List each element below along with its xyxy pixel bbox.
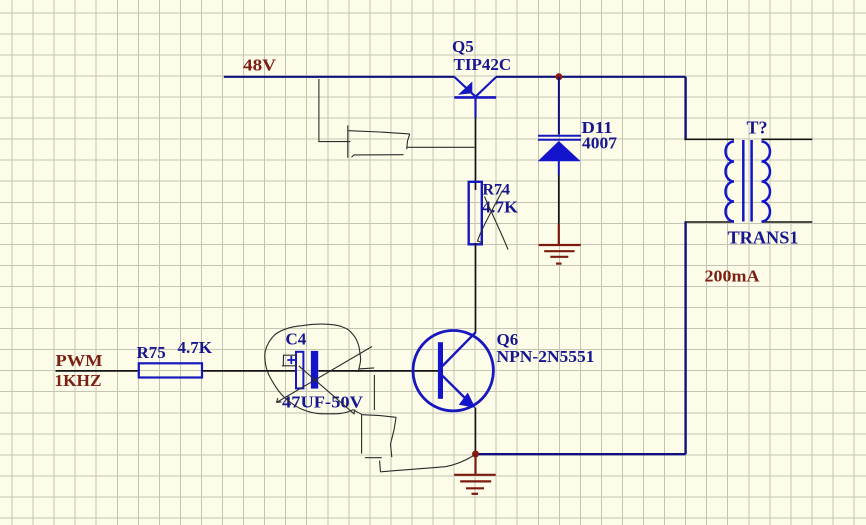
svg-text:1KHZ: 1KHZ bbox=[55, 371, 102, 390]
junction dot (emitter / bottom rail / ground) bbox=[472, 451, 479, 458]
svg-text:R75: R75 bbox=[137, 343, 166, 362]
annotation pencil loop around C4 bbox=[265, 324, 375, 415]
junction dot (48V rail / D11) bbox=[555, 73, 562, 80]
ground (D11) bbox=[539, 224, 581, 264]
wire transformer bottom to bottom rail bbox=[684, 222, 686, 454]
resistor R75 bbox=[139, 363, 202, 377]
wire PWM to R75 bbox=[56, 370, 139, 372]
svg-text:C4: C4 bbox=[286, 330, 307, 349]
svg-text:4.7K: 4.7K bbox=[482, 197, 519, 216]
svg-text:PWM: PWM bbox=[56, 351, 103, 370]
annotation pencil marks near Q5 bbox=[319, 79, 475, 158]
ground (Q6 emitter) bbox=[454, 454, 496, 494]
svg-text:4007: 4007 bbox=[582, 134, 618, 153]
annotation pencil X over C4 bbox=[277, 347, 373, 414]
svg-text:200mA: 200mA bbox=[705, 267, 761, 286]
transistor Q5 bbox=[454, 77, 496, 118]
wire C4 to Q6 base bbox=[318, 370, 438, 372]
svg-text:Q5: Q5 bbox=[452, 37, 474, 56]
svg-text:4.7K: 4.7K bbox=[178, 338, 213, 357]
transistor Q6 emitter arrow bbox=[459, 393, 476, 408]
svg-text:47UF-50V: 47UF-50V bbox=[282, 393, 364, 412]
wire bottom rail bbox=[476, 453, 686, 455]
capacitor C4 plus sign bbox=[287, 356, 295, 364]
svg-text:R74: R74 bbox=[483, 182, 511, 199]
annotation pencil X over R74 bbox=[478, 191, 509, 250]
transistor Q6 base bar bbox=[438, 342, 443, 399]
diode D11 bbox=[538, 136, 581, 175]
transistor Q6 emitter bbox=[443, 376, 472, 404]
resistor R74 bbox=[469, 182, 482, 245]
svg-text:T?: T? bbox=[747, 118, 768, 138]
wire Q5 base to R74 bbox=[475, 118, 477, 190]
wire Q6 emitter to junction bbox=[474, 408, 476, 454]
transformer T? core bbox=[742, 140, 745, 222]
svg-text:TRANS1: TRANS1 bbox=[728, 227, 799, 247]
capacitor C4 left plate bbox=[296, 352, 303, 389]
transformer T? pins bbox=[684, 139, 812, 222]
transformer T? secondary winding bbox=[762, 142, 771, 222]
svg-text:TIP42C: TIP42C bbox=[454, 55, 512, 74]
wire 48V rail left bbox=[224, 76, 455, 78]
transistor Q6 circle bbox=[413, 331, 493, 411]
svg-text:NPN-2N5551: NPN-2N5551 bbox=[497, 347, 595, 366]
svg-text:48V: 48V bbox=[243, 56, 277, 75]
transistor Q6 collector bbox=[443, 332, 476, 366]
annotation pencil box near ground bbox=[362, 415, 474, 472]
wire junction to D11 bbox=[558, 77, 560, 135]
capacitor C4 right plate bbox=[311, 351, 318, 389]
wire R74 to Q6 collector bbox=[475, 243, 477, 333]
wire R75 to C4 bbox=[202, 370, 296, 372]
wire 48V rail right bbox=[496, 76, 686, 78]
wire D11 anode to ground bbox=[558, 175, 560, 224]
wire rail corner to transformer top bbox=[684, 77, 686, 140]
transformer T? primary winding bbox=[726, 142, 735, 222]
